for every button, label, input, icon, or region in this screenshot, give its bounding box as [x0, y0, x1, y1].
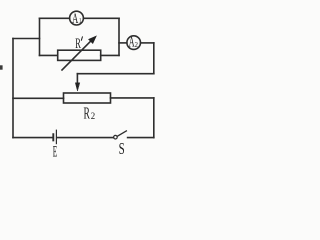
wire R2 right lead [111, 97, 154, 99]
wire A2 to right rail [141, 42, 154, 44]
wire right rail lower segment [153, 98, 155, 138]
switch S [114, 131, 127, 139]
resistor R2 box [64, 93, 111, 103]
wire R' branch right [101, 54, 119, 56]
resistor R2 wiper arrow [75, 74, 79, 91]
svg-text:R: R [84, 103, 90, 122]
wire battery to switch [57, 137, 113, 139]
rheostat R' box [58, 50, 101, 60]
svg-text:A: A [72, 11, 79, 27]
svg-text:R: R [75, 36, 81, 52]
wire R2 wiper horizontal [77, 73, 153, 75]
wire top branch right (A1 to corner) [84, 17, 120, 19]
wire bottom left (rail to battery) [13, 137, 53, 139]
battery E [53, 130, 56, 143]
wire A2 branch left [119, 42, 127, 44]
svg-text:S: S [119, 139, 125, 158]
svg-text:2: 2 [135, 40, 139, 49]
wire switch to right rail [128, 137, 154, 139]
wire left rail [12, 39, 14, 138]
left margin artifact mark [0, 65, 3, 69]
wire R' branch left [40, 54, 58, 56]
wire tap from left rail to parallel block [13, 38, 40, 40]
wire top branch left (to A1) [40, 17, 70, 19]
svg-text:2: 2 [91, 111, 96, 122]
rheostat R' arrow [62, 36, 96, 70]
svg-text:1: 1 [79, 17, 82, 25]
ammeter A2 [127, 35, 141, 51]
wire R2 left lead [13, 97, 64, 99]
wire parallel block right vertical [118, 18, 120, 55]
wire right rail upper segment [153, 43, 155, 74]
label R' [75, 36, 82, 52]
wire parallel block left vertical [39, 18, 41, 55]
label R2 [84, 103, 96, 122]
ammeter A1 [70, 11, 84, 27]
svg-text:E: E [53, 143, 58, 160]
